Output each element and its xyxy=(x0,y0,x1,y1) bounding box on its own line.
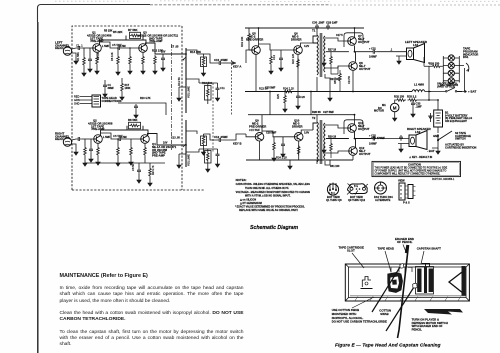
wire tone junction xyxy=(186,79,218,83)
slot box (player front) xyxy=(345,264,469,301)
rail bottom (lower amp) xyxy=(246,159,353,161)
svg-text:C27 5MF: C27 5MF xyxy=(323,110,334,114)
svg-text:C15 5MF: C15 5MF xyxy=(249,128,260,132)
ground rail lower preamp xyxy=(85,162,165,164)
svg-text:SHD: SHD xyxy=(74,102,80,106)
resistor R10 (Q4 base) xyxy=(130,146,133,157)
svg-text:THAN ONE IN MF. ALL OTHERS IN: THAN ONE IN MF. ALL OTHERS IN PF. xyxy=(245,187,289,190)
capacitor C6 (coupling) xyxy=(117,137,123,141)
capacitor C4 (decoupling) xyxy=(103,83,107,89)
svg-text:R22 120: R22 120 xyxy=(291,53,295,64)
node rail junction A xyxy=(269,91,271,93)
svg-text:PRE-AMP: PRE-AMP xyxy=(152,154,165,158)
wire to C10 xyxy=(204,54,218,63)
node dot e xyxy=(352,91,354,93)
diode CR1 xyxy=(429,113,433,122)
cotton swab stick (diagonal) xyxy=(372,267,400,312)
svg-text:R5 22K: R5 22K xyxy=(113,30,122,34)
board outline bottom (dashed) xyxy=(72,189,205,191)
capacitor C1 xyxy=(76,46,82,50)
capacitor C3 (interstage) xyxy=(117,55,120,66)
resistor R15 (boxed tone) xyxy=(201,57,207,67)
node dot h xyxy=(437,99,439,101)
wire C10 to key A xyxy=(223,62,236,64)
ground T1 secondary tap xyxy=(323,57,325,60)
transformer T2 xyxy=(313,120,325,164)
tape head mounting (in figure) xyxy=(391,267,412,273)
wire decoupling bus xyxy=(118,103,166,115)
page top border line xyxy=(38,5,151,23)
wire rail2 to Q4 xyxy=(143,130,148,135)
svg-text:*R29 150: *R29 150 xyxy=(428,62,440,66)
svg-text:R13 5K: R13 5K xyxy=(177,77,181,86)
ground under C14 xyxy=(279,65,283,71)
wire T2 top to rail xyxy=(316,115,318,122)
transistor Q11 (output) xyxy=(348,124,357,133)
svg-text:C30 .1MF: C30 .1MF xyxy=(312,21,325,25)
wire keyA input to Q5 base xyxy=(246,50,252,63)
svg-text:R24 2.2K: R24 2.2K xyxy=(283,87,294,91)
node rail junction B xyxy=(310,91,312,93)
speaker LS2 (right) xyxy=(409,131,427,150)
svg-text:LS2: LS2 xyxy=(415,130,421,134)
capacitor C8 xyxy=(137,168,141,174)
power transistor outline Q9-Q12 xyxy=(347,184,368,195)
svg-text:OUTPUT: OUTPUT xyxy=(359,152,371,156)
svg-text:T1: T1 xyxy=(312,29,316,33)
ground under R4 xyxy=(96,159,100,165)
node junction R6c xyxy=(117,138,119,140)
wire head2 to C4 xyxy=(72,139,76,149)
svg-text:Figure E — Tape Head And Capst: Figure E — Tape Head And Capstan Cleanin… xyxy=(335,342,441,347)
svg-text:R19 10K: R19 10K xyxy=(240,36,244,47)
volume control R13 (upper) xyxy=(185,48,187,113)
svg-text:C10 .05MF: C10 .05MF xyxy=(214,58,228,62)
battery B1 xyxy=(434,110,443,127)
swab 2 stick xyxy=(386,287,414,331)
resistor R32 xyxy=(396,99,407,102)
transistor Q6 xyxy=(294,46,303,55)
ground T2 secondary tap xyxy=(323,144,325,147)
svg-text:OF POWER SUPPLY. UNIT WILL NO: OF POWER SUPPLY. UNIT WILL NOT OPERATE A… xyxy=(375,170,447,173)
svg-text:GRN: GRN xyxy=(74,98,80,102)
node dot a xyxy=(185,53,187,55)
motor M1 xyxy=(390,103,399,112)
ground under R6c xyxy=(116,160,120,166)
resistor R9b xyxy=(149,167,152,178)
loop wire around Q11 xyxy=(344,120,363,134)
tape head (in figure) xyxy=(388,273,403,293)
resistor R9 (collector load) xyxy=(154,55,157,66)
capacitor C14b xyxy=(281,142,285,148)
wire Q6 emitter xyxy=(297,54,299,91)
ground under C14b xyxy=(281,151,285,157)
ground under R15b xyxy=(202,149,206,155)
svg-text:HEAD: HEAD xyxy=(55,46,64,50)
node Q3 base junction xyxy=(129,47,131,49)
resistor R7b (feedback boxed, lower) xyxy=(129,122,141,129)
node dot d xyxy=(354,27,356,29)
ground under C3 xyxy=(116,69,120,75)
svg-text:OUTPUT: OUTPUT xyxy=(358,40,370,44)
connector view P1 xyxy=(399,183,416,200)
svg-text:- BAT: - BAT xyxy=(427,149,435,153)
capacitor C11b xyxy=(216,152,220,158)
wire pot top to R14 xyxy=(186,50,197,54)
lamp DS2 xyxy=(448,63,454,69)
svg-text:R9 4.7K: R9 4.7K xyxy=(151,165,155,175)
lamp frame bus wires xyxy=(443,56,459,83)
wire to C10b xyxy=(204,134,218,140)
lamp DS4 xyxy=(448,78,454,84)
svg-text:L1 4MH: L1 4MH xyxy=(414,83,424,87)
svg-text:.1MF: .1MF xyxy=(416,104,422,108)
node dot g xyxy=(428,99,430,101)
resistor R7 (feedback, boxed) xyxy=(130,32,141,38)
transistor Q4 xyxy=(141,135,150,144)
transistor Q1 xyxy=(93,44,102,53)
screw post inside slot xyxy=(361,277,373,289)
wire Q1 collector to C5 xyxy=(100,42,117,48)
capacitor C6b (Q2 base bypass) xyxy=(89,147,93,153)
wire C10b to key B xyxy=(223,134,246,140)
wire down to battery xyxy=(437,91,439,111)
resistor R20b xyxy=(273,141,276,152)
wire output node xyxy=(326,46,371,62)
ground under C4 xyxy=(103,91,107,97)
switch S1 (on-off) xyxy=(447,88,463,92)
resistor R30a (decoupling) xyxy=(121,82,124,93)
svg-text:R25: R25 xyxy=(276,94,280,99)
svg-text:C18 5MF: C18 5MF xyxy=(266,132,277,135)
wire inter-rail A xyxy=(269,92,271,115)
resistor R18 (Q5 bias) xyxy=(248,32,251,43)
wiper arrow R13 xyxy=(183,57,186,60)
svg-text:Schematic Diagram: Schematic Diagram xyxy=(250,225,299,231)
svg-text:OR EQUIVALENT: OR EQUIVALENT xyxy=(445,119,467,123)
svg-text:R27 18: R27 18 xyxy=(328,49,337,52)
svg-text:SWAB: SWAB xyxy=(380,312,388,316)
svg-text:+ BAT: + BAT xyxy=(468,90,476,94)
node dot c xyxy=(258,27,260,29)
capacitor C11 (tone) xyxy=(216,86,220,92)
resistor R4 (Q2 emitter) xyxy=(97,146,100,157)
wire Q12 emitter down xyxy=(352,155,354,160)
svg-text:(PART OF R13): (PART OF R13) xyxy=(437,85,455,88)
svg-text:WITH A VTVM. ± DB NO SIGNAL I: WITH A VTVM. ± DB NO SIGNAL INPUT. xyxy=(245,195,291,198)
svg-text:C7 .05: C7 .05 xyxy=(171,46,179,49)
board outline right (dashed) xyxy=(181,26,183,190)
svg-text:KEY A: KEY A xyxy=(233,65,241,69)
loop wire around Q7 xyxy=(344,33,363,47)
ground under C6b xyxy=(89,156,93,162)
wire T2 secondary to Q12 base xyxy=(325,151,349,153)
ground under C7 xyxy=(161,65,165,71)
capacitor C2 (base bypass) xyxy=(88,57,92,63)
node dot b xyxy=(185,144,187,146)
resistor R25 (below rail) xyxy=(284,94,287,105)
svg-text:R33 2.2: R33 2.2 xyxy=(407,95,417,99)
wire C32 to right speaker xyxy=(377,138,398,140)
svg-text:R31 100: R31 100 xyxy=(330,165,340,168)
svg-text:⊥ KEY - RESULT IN: ⊥ KEY - RESULT IN xyxy=(409,155,432,159)
svg-text:E B C: E B C xyxy=(329,192,336,195)
svg-text:COMPONENTS WILL RESULT IF CONN: COMPONENTS WILL RESULT IF CONNECTED OTHE… xyxy=(375,174,441,176)
wire C5 to Q3 base xyxy=(122,47,139,49)
wire R29 drop xyxy=(428,66,430,91)
wire C6 to Q4 base xyxy=(123,138,141,140)
svg-text:R2 1K: R2 1K xyxy=(96,52,100,60)
svg-text:R14 15K: R14 15K xyxy=(190,50,201,54)
wire Q6 collector to T1 xyxy=(301,43,314,47)
wire T1 secondary to Q8 base xyxy=(325,66,349,68)
svg-text:+ C31: + C31 xyxy=(369,48,376,51)
wire T1 top to rail xyxy=(316,28,318,35)
resistor R8 (Q3 emitter) xyxy=(142,55,145,66)
svg-text:C34 470MF: C34 470MF xyxy=(371,136,385,140)
ground tap on rail xyxy=(329,92,331,96)
svg-text:VIEW: VIEW xyxy=(398,179,405,183)
capacitor C33 xyxy=(411,101,415,107)
scan noise top xyxy=(55,0,499,3)
resistor R22b xyxy=(297,145,300,156)
rail bottom (upper amp) xyxy=(245,91,412,93)
tone link 2 (dashed) xyxy=(231,60,233,115)
tape head connector J1 xyxy=(92,95,101,107)
ground under R9b xyxy=(148,180,152,186)
ground under R25 xyxy=(283,106,287,112)
capacitor C14 xyxy=(279,56,283,62)
wire Q1 collector to rail xyxy=(100,36,144,45)
ground head2 return xyxy=(74,149,78,155)
svg-text:OUTPUT: OUTPUT xyxy=(358,127,370,131)
leader line tape head xyxy=(385,251,391,272)
resistor R11 (Q4 emitter) xyxy=(144,146,147,157)
node junction rail/R7 xyxy=(99,39,101,41)
ground tap lower rail xyxy=(289,160,291,163)
svg-text:R24 2.2K: R24 2.2K xyxy=(276,156,287,160)
node dot f xyxy=(354,114,356,116)
volume control R13b (lower) xyxy=(185,120,187,167)
svg-text:30MF: 30MF xyxy=(108,87,115,90)
svg-text:CAPACITORS- UNLESS OTHERWISE S: CAPACITORS- UNLESS OTHERWISE SPECIFIED, … xyxy=(236,183,311,186)
wire R29 to speaker return xyxy=(423,57,425,66)
resistor R24 xyxy=(283,90,294,93)
resistor R1 (base bias) xyxy=(83,56,86,67)
svg-text:LS1: LS1 xyxy=(413,43,419,47)
transistor Q5 xyxy=(252,46,261,55)
wire speaker return xyxy=(396,52,407,58)
ground under R15 xyxy=(202,70,206,76)
head PU2 (right channel head) xyxy=(63,138,71,146)
arrow + BAT xyxy=(462,90,467,92)
shadow under box right xyxy=(424,309,463,315)
svg-text:B E: B E xyxy=(354,185,358,188)
svg-text:TAPE HEAD: TAPE HEAD xyxy=(378,247,395,251)
capacitor C31 xyxy=(371,50,377,54)
wire Q5 emitter down to rail bottom xyxy=(255,54,257,91)
svg-text:1.5M: 1.5M xyxy=(120,45,126,48)
lamp base view DS xyxy=(375,182,387,194)
node output junction xyxy=(354,51,356,53)
svg-text:100MF: 100MF xyxy=(369,142,377,145)
resistor R29 xyxy=(424,65,443,67)
ground under R2 xyxy=(95,68,99,74)
svg-text:R32 150: R32 150 xyxy=(394,95,405,99)
svg-text:C26: C26 xyxy=(300,95,305,99)
leader line capstan xyxy=(421,251,424,264)
wire Q2 collector to C6 xyxy=(101,133,118,139)
node junction C3 xyxy=(117,47,119,49)
svg-text:KEY B: KEY B xyxy=(233,142,242,146)
svg-text:3.8V: 3.8V xyxy=(304,132,309,135)
wire T2 secondary to Q11 base xyxy=(325,125,348,128)
resistor R15b (boxed) xyxy=(201,136,207,146)
head PU1 (left channel head) xyxy=(63,47,71,55)
tone link (dashed) xyxy=(212,83,214,152)
wiper arrow R13b xyxy=(183,144,186,147)
wire T1 secondary to Q7 base xyxy=(325,38,348,41)
svg-text:100K: 100K xyxy=(125,87,131,90)
wire C31 to speaker xyxy=(377,51,396,53)
ground under C33 xyxy=(411,111,415,117)
svg-text:VOLUME: VOLUME xyxy=(187,86,191,98)
wire Q11 collector up to rail xyxy=(330,115,355,125)
node output junction lower xyxy=(354,138,356,140)
resistor R20 xyxy=(270,55,273,66)
svg-text:1.5M: 1.5M xyxy=(121,136,127,139)
wire keyB input to Q9 base xyxy=(246,134,255,137)
svg-text:PENCIL: PENCIL xyxy=(412,328,423,332)
pins of J1 xyxy=(80,97,92,104)
board outline (dashed) xyxy=(72,26,182,190)
svg-text:C11: C11 xyxy=(220,86,225,90)
svg-text:REPLACE WITH SAME VALUE AS ORI: REPLACE WITH SAME VALUE AS ORIGINAL PART… xyxy=(239,209,298,212)
ground under C7b xyxy=(134,112,138,118)
ground under R20b xyxy=(272,155,276,161)
wire Q5 collector up xyxy=(258,28,260,47)
ground under R6 xyxy=(128,68,132,74)
wire indicator common xyxy=(464,68,466,92)
wire Q9 collector to Q10 base xyxy=(262,131,294,137)
resistor R25b (bias) xyxy=(330,55,333,66)
svg-text:VOLUME: VOLUME xyxy=(187,154,191,166)
resistor R6c (lower mirror) xyxy=(117,146,120,157)
ground under C26 xyxy=(296,103,300,109)
wire Q8 emitter down xyxy=(352,70,354,91)
wire Q10 emitter xyxy=(298,141,300,160)
lamp DS1 xyxy=(448,55,454,61)
svg-text:RED: RED xyxy=(74,95,80,99)
gang link (dash-dot) xyxy=(171,44,173,150)
pencil (diagonal) xyxy=(398,245,409,338)
node GND junction xyxy=(437,134,439,136)
wire Q10 collector to T2 xyxy=(301,130,313,133)
svg-text:CAPSTAN SHAFT: CAPSTAN SHAFT xyxy=(417,246,441,250)
ground under motor xyxy=(394,112,396,115)
svg-text:R21 100: R21 100 xyxy=(330,78,340,81)
resistor R6 (Q3 base) xyxy=(129,55,132,66)
leader line pencil xyxy=(403,245,406,253)
capacitor C4 xyxy=(76,137,82,141)
svg-text:C24 50: C24 50 xyxy=(348,75,351,84)
svg-text:R1 56K: R1 56K xyxy=(76,52,80,61)
resistor R3 (Q2 base) xyxy=(84,146,87,157)
svg-text:L 5MF: L 5MF xyxy=(103,136,111,139)
wire Q2 collector to rail2 xyxy=(101,126,144,136)
node key A arrow xyxy=(232,61,236,64)
wire inter-rail B xyxy=(310,92,312,115)
svg-text:10V: 10V xyxy=(161,51,166,54)
svg-text:P & S: P & S xyxy=(403,201,410,205)
svg-text:DO NOT USE CARBON TETRACHLORID: DO NOT USE CARBON TETRACHLORIDE xyxy=(332,320,387,324)
ground under R16b xyxy=(206,166,210,172)
lamp DS3 xyxy=(448,70,454,76)
svg-text:C12 .05MF: C12 .05MF xyxy=(214,135,228,139)
ground under C11b xyxy=(216,161,220,167)
T1 bottom connection xyxy=(317,74,330,92)
ground under R1 xyxy=(82,70,86,76)
svg-text:THIS POWER LEAD MUST BE CONNEC: THIS POWER LEAD MUST BE CONNECTED TO POS… xyxy=(375,167,448,170)
rail top (lower amp) xyxy=(248,114,330,116)
wire head to C1 xyxy=(72,48,76,58)
capacitor C10b xyxy=(217,138,223,142)
capacitor C29 (rail bypass) xyxy=(315,24,319,30)
T2 bottom connection xyxy=(317,160,330,165)
ground R13b bottom xyxy=(179,154,186,162)
svg-text:PRE-DRIVER: PRE-DRIVER xyxy=(249,124,266,128)
svg-text:NOTES:: NOTES: xyxy=(236,178,247,182)
svg-text:DRIVER: DRIVER xyxy=(292,124,303,128)
tone control R16b (boxed, lower) xyxy=(205,151,212,164)
transistor Q7 (output) xyxy=(348,37,357,46)
wire junction down xyxy=(418,92,429,101)
ground under LS1 xyxy=(397,58,401,64)
svg-text:M1: M1 xyxy=(382,103,386,107)
svg-text:C17 5: C17 5 xyxy=(336,34,343,37)
resistor R28a (Q8 bias) xyxy=(339,72,342,83)
ground under C34 xyxy=(399,146,403,152)
svg-text:C1 .1: C1 .1 xyxy=(76,44,83,48)
svg-text:L 5MF: L 5MF xyxy=(102,45,110,48)
wire Q9 emitter down xyxy=(259,141,261,160)
wire Q5 collector to Q6 base xyxy=(259,44,294,50)
svg-text:4.2V: 4.2V xyxy=(304,45,309,48)
transistor Q10 xyxy=(294,133,303,142)
ground - BAT xyxy=(436,148,440,154)
svg-text:OUTPUT: OUTPUT xyxy=(359,67,371,71)
speaker LS1 (left) xyxy=(407,44,425,63)
svg-text:Q9 THRU Q12: Q9 THRU Q12 xyxy=(348,198,366,202)
capacitor C26 (below rail) xyxy=(296,94,300,100)
svg-text:M: M xyxy=(393,106,397,111)
transistor Q2 xyxy=(94,135,103,144)
wire C4 to Q2 base xyxy=(82,138,94,140)
svg-text:PRE-AMP: PRE-AMP xyxy=(92,127,105,131)
svg-text:R29 18: R29 18 xyxy=(328,135,337,138)
transistor Q12 (output) xyxy=(349,147,358,156)
svg-text:R5 15K: R5 15K xyxy=(104,30,113,33)
leader line swab label xyxy=(352,297,374,308)
ground under R10 xyxy=(129,159,133,165)
svg-text:Q1 THRU Q8: Q1 THRU Q8 xyxy=(326,198,342,202)
capacitor C7b xyxy=(134,104,138,110)
svg-text:DRIVER: DRIVER xyxy=(291,37,302,41)
svg-text:C29 1MF: C29 1MF xyxy=(326,21,338,25)
svg-text:R6 10K: R6 10K xyxy=(110,52,114,61)
resistor R25c (bias lower) xyxy=(330,142,333,153)
ground under R8 xyxy=(141,68,145,74)
